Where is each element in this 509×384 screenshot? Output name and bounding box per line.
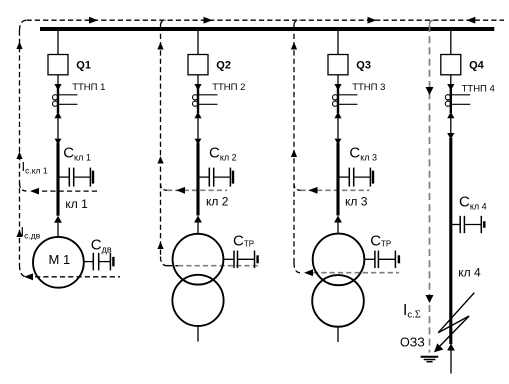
svg-text:Q1: Q1 [76,59,91,71]
svg-text:ТТНП 2: ТТНП 2 [212,82,245,93]
svg-text:кл 3: кл 3 [345,194,368,208]
svg-text:кл 4: кл 4 [458,266,481,280]
svg-text:ТТНП 3: ТТНП 3 [352,82,385,93]
svg-text:Q2: Q2 [216,59,231,71]
svg-text:М 1: М 1 [49,252,71,267]
svg-text:кл 2: кл 2 [206,194,229,208]
svg-text:ТТНП 4: ТТНП 4 [462,84,495,95]
svg-text:Q3: Q3 [356,59,371,71]
svg-text:кл 1: кл 1 [65,197,88,211]
svg-text:ОЗЗ: ОЗЗ [400,336,425,350]
svg-text:Q4: Q4 [469,59,485,71]
svg-text:ТТНП 1: ТТНП 1 [72,82,105,93]
